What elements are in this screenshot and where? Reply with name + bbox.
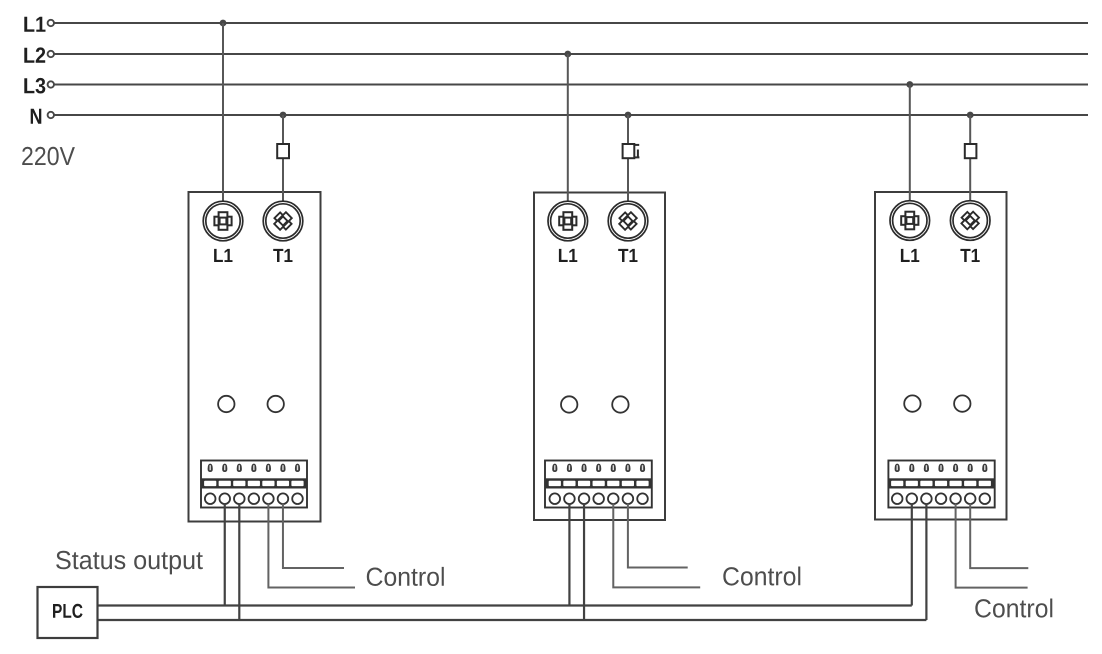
label L1 pin of U3 <box>901 249 919 262</box>
junction dot on rail for U1 T1 feed <box>280 112 287 119</box>
control wire outer from U1 terminal 5 <box>268 504 355 588</box>
screw terminal L1 of U3 <box>890 201 930 241</box>
screw terminal L1 of U1 <box>203 201 243 241</box>
label Status output <box>56 551 203 575</box>
screw terminal T1 of U1 <box>263 201 303 241</box>
rail label L2 <box>24 47 45 62</box>
status wire b from U3 terminal 3 <box>925 504 927 621</box>
status wire a from U1 terminal 2 <box>224 504 226 606</box>
status wire b from U1 terminal 3 <box>238 504 240 621</box>
indicator LED left of U1 <box>218 396 234 412</box>
SSR module U3 body <box>875 192 1007 520</box>
rail label N <box>31 109 42 124</box>
label T1 pin of U2 <box>618 249 637 262</box>
control terminal block of U1 <box>201 461 307 508</box>
wire feed to U2 L1 <box>567 54 569 202</box>
rail L2 source terminal <box>48 51 54 57</box>
rail label L1 <box>24 17 45 32</box>
wire feed to U3 T1 <box>969 115 971 201</box>
label T1 pin of U1 <box>273 249 292 262</box>
clamp band of U2 <box>545 478 652 488</box>
indicator LED left of U2 <box>561 396 577 412</box>
label Control 3 <box>975 599 1052 618</box>
label L1 pin of U1 <box>214 249 232 262</box>
junction dot on rail for U3 T1 feed <box>967 112 974 119</box>
screw terminal T1 of U3 <box>950 201 990 241</box>
rail N source terminal <box>48 112 54 118</box>
supply voltage label 220V <box>22 147 75 166</box>
wire feed to U1 T1 <box>282 115 284 202</box>
rail L1 source terminal <box>48 20 54 26</box>
wire entry holes of U2 <box>550 493 648 504</box>
label T1 pin of U3 <box>960 249 979 262</box>
screw terminal T1 of U2 <box>608 201 648 241</box>
SSR module U2 body <box>534 193 665 521</box>
wire feed to U2 T1 <box>627 115 629 202</box>
terminal screws row of U1 <box>208 464 301 472</box>
control wire outer from U3 terminal 5 <box>956 504 1028 588</box>
control terminal block of U3 <box>888 461 994 508</box>
wire feed to U3 L1 <box>909 85 911 202</box>
clamp band of U1 <box>201 478 307 488</box>
indicator LED right of U1 <box>268 396 284 412</box>
junction dot on rail for U3 L1 feed <box>906 81 913 88</box>
screw terminal L1 of U2 <box>548 201 588 241</box>
wire entry holes of U3 <box>892 493 990 504</box>
wire entry holes of U1 <box>205 493 303 504</box>
status bus wire top (PLC output a) <box>98 604 912 606</box>
terminal screws row of U2 <box>552 464 645 472</box>
PLC box <box>38 587 98 638</box>
indicator LED right of U3 <box>954 395 970 411</box>
fuse F3 <box>965 144 977 158</box>
fuse F2 <box>623 144 640 158</box>
clamp band of U3 <box>888 478 994 488</box>
status wire a from U2 terminal 2 <box>568 504 570 606</box>
label L1 pin of U2 <box>559 249 577 262</box>
control wire inner from U1 terminal 6 <box>283 504 344 569</box>
control terminal block of U2 <box>545 461 652 508</box>
phase rail L1 wire <box>55 22 1089 24</box>
indicator LED right of U2 <box>612 396 628 412</box>
phase rail N wire <box>55 114 1089 116</box>
junction dot on rail for U1 L1 feed <box>220 20 227 27</box>
rail L3 source terminal <box>48 81 54 87</box>
indicator LED left of U3 <box>904 395 920 411</box>
junction dot on rail for U2 L1 feed <box>564 51 571 58</box>
label PLC <box>53 604 83 618</box>
rail label L3 <box>24 78 45 94</box>
control wire inner from U2 terminal 6 <box>628 504 688 568</box>
label Control 1 <box>367 567 444 586</box>
fuse F1 <box>277 144 289 158</box>
junction dot on rail for U2 T1 feed <box>625 112 632 119</box>
label Control 2 <box>723 567 800 586</box>
phase rail L3 wire <box>55 84 1089 86</box>
phase rail L2 wire <box>55 53 1089 55</box>
wire feed to U1 L1 <box>222 23 224 202</box>
status wire b from U2 terminal 3 <box>583 504 585 621</box>
SSR module U1 body <box>189 192 321 522</box>
terminal screws row of U3 <box>895 464 988 472</box>
status wire a from U3 terminal 2 <box>911 504 913 606</box>
status bus wire bottom (PLC output b) <box>98 619 927 621</box>
control wire outer from U2 terminal 5 <box>613 504 700 588</box>
control wire inner from U3 terminal 6 <box>970 504 1028 569</box>
